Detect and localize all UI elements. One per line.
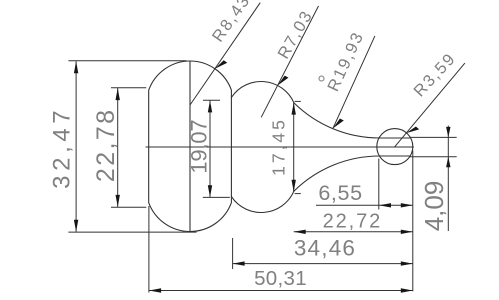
svg-text:19,07: 19,07 <box>187 120 212 174</box>
svg-text:17,45: 17,45 <box>268 117 288 176</box>
radius leader R7,03 <box>261 6 318 117</box>
radius leader R8,43 top left <box>190 3 260 105</box>
radius leader R19,93 <box>333 36 375 128</box>
svg-text:6,55: 6,55 <box>318 181 362 205</box>
neck bottom concave arc <box>294 156 380 191</box>
capsule body outline <box>149 61 232 232</box>
dimension 6,55 horizontal <box>316 159 413 210</box>
neck bottom flat line <box>380 155 411 157</box>
dimension 22,78 vertical <box>111 88 146 207</box>
dimension 17,45 vertical at bulb <box>294 101 301 193</box>
radius leader R3,59 <box>395 63 465 147</box>
capsule vertical centerline <box>189 61 191 232</box>
svg-text:R8,43: R8,43 <box>209 0 254 45</box>
svg-text:22,78: 22,78 <box>92 108 120 183</box>
svg-text:R19,93: R19,93 <box>324 29 367 95</box>
neck top flat line <box>380 137 411 139</box>
horizontal centerline axis <box>146 146 414 148</box>
end ball circle R3,59 <box>377 129 413 165</box>
dimension 32,47 vertical left <box>68 61 196 232</box>
svg-text:4,09: 4,09 <box>419 181 449 232</box>
dimension 19,07 vertical inside capsule <box>203 100 230 197</box>
svg-text:R7,03: R7,03 <box>274 7 316 62</box>
dimension 50,31 horizontal bottom <box>149 206 413 293</box>
bulb bottom arc <box>231 191 294 212</box>
bulb top arc R7,03 <box>231 82 294 103</box>
small ring ornament near R19,93 <box>319 76 324 81</box>
svg-text:32,47: 32,47 <box>48 106 75 189</box>
svg-text:50,31: 50,31 <box>254 267 307 290</box>
neck top concave arc R19,93 <box>294 103 380 138</box>
dimension 22,72 horizontal <box>294 231 413 233</box>
svg-text:34,46: 34,46 <box>294 236 356 261</box>
dimension 34,46 horizontal <box>233 151 413 292</box>
dimension 4,09 vertical right <box>410 126 457 231</box>
svg-text:R3,59: R3,59 <box>410 49 459 100</box>
svg-text:22,72: 22,72 <box>323 210 383 232</box>
